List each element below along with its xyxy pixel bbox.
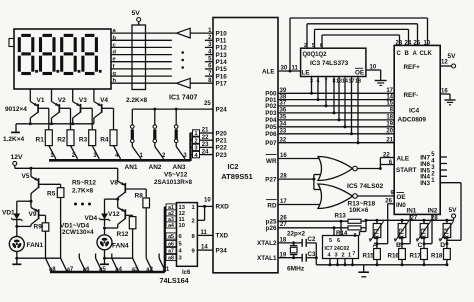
svg-text:IC7 24C02: IC7 24C02	[325, 246, 350, 252]
wire Q2 pin6 to C pin23	[320, 35, 400, 49]
ground (FAN4)	[100, 258, 109, 264]
resistor R5	[47, 188, 64, 259]
resistor R13	[335, 212, 367, 223]
svg-text:19: 19	[386, 122, 393, 128]
thermistor RT3	[416, 220, 431, 245]
svg-text:27: 27	[280, 222, 287, 228]
24C02 pin labels	[328, 233, 357, 258]
svg-text:AN3: AN3	[173, 164, 186, 171]
svg-text:17: 17	[349, 78, 355, 84]
svg-text:15: 15	[386, 101, 393, 107]
svg-text:9012×4: 9012×4	[5, 106, 27, 113]
svg-text:21: 21	[386, 137, 393, 143]
svg-text:R8: R8	[135, 193, 144, 200]
svg-text:V8: V8	[110, 180, 118, 187]
svg-text:AT89S51: AT89S51	[221, 172, 253, 181]
svg-text:24: 24	[405, 40, 412, 46]
svg-text:IC1 7407: IC1 7407	[169, 95, 198, 102]
svg-text:P21: P21	[216, 138, 228, 145]
wire caps to ground	[315, 243, 318, 265]
transistor V9 (2SA1013)	[29, 201, 46, 226]
labels IC2 AT89S51	[221, 164, 253, 181]
labels IC3 74LS373	[302, 52, 365, 77]
svg-text:P06: P06	[265, 131, 277, 138]
svg-text:P34: P34	[216, 247, 228, 254]
resistor network RP 2.2K×8	[126, 25, 148, 104]
resistor R9	[34, 223, 49, 258]
svg-text:18: 18	[355, 78, 361, 84]
wires 24C02 ground pins	[329, 259, 355, 267]
svg-text:33: 33	[280, 129, 287, 135]
svg-text:7: 7	[353, 251, 356, 257]
svg-text:FAN4: FAN4	[112, 243, 129, 250]
svg-text:P23: P23	[216, 152, 228, 159]
svg-text:REF+: REF+	[404, 64, 421, 71]
IC2 left port labels	[216, 30, 230, 254]
svg-text:23: 23	[396, 40, 403, 46]
svg-text:IN3: IN3	[420, 180, 430, 187]
buffer IC1h 7407 (segment h)	[177, 78, 213, 88]
svg-text:WR: WR	[266, 158, 277, 165]
svg-text:5V: 5V	[448, 53, 457, 60]
labels IC6 74LS164	[160, 270, 192, 285]
svg-text:RT3: RT3	[422, 228, 428, 240]
wire p26 SDA	[278, 222, 348, 229]
svg-text:R12: R12	[117, 231, 129, 238]
svg-text:3: 3	[179, 256, 183, 262]
bus stub 1 to P20 pin 21	[191, 128, 214, 138]
svg-text:R1: R1	[36, 137, 45, 144]
svg-text:V3: V3	[79, 97, 87, 104]
wires display segments a-h	[111, 33, 177, 83]
svg-text:35: 35	[280, 115, 287, 121]
svg-text:16: 16	[441, 89, 448, 95]
svg-text:IN1: IN1	[407, 207, 417, 214]
ground (display drivers)	[11, 124, 20, 133]
svg-text:10: 10	[179, 223, 185, 229]
svg-text:ADC0809: ADC0809	[398, 117, 427, 124]
bus stub 3 to P22 pin 23	[191, 142, 214, 152]
svg-text:4: 4	[179, 249, 183, 255]
svg-text:P14: P14	[216, 59, 228, 66]
svg-text:74LS164: 74LS164	[160, 276, 189, 285]
svg-text:39: 39	[280, 88, 287, 94]
bus digit/key select (thick)	[49, 133, 191, 161]
NOR gate IC5b	[318, 184, 357, 209]
transistor V5 (2SA1013)	[22, 168, 61, 202]
svg-text:P16: P16	[216, 73, 228, 80]
svg-text:7: 7	[325, 78, 328, 84]
label 1.2K×4	[3, 136, 25, 143]
svg-text:V1: V1	[37, 97, 45, 104]
svg-text:C2: C2	[308, 236, 316, 243]
svg-text:P12: P12	[216, 45, 228, 52]
svg-text:p26: p26	[266, 225, 277, 232]
svg-text:CLK: CLK	[420, 51, 433, 57]
svg-text:a5: a5	[99, 267, 106, 273]
svg-text:32: 32	[280, 137, 287, 143]
fan FAN4	[97, 228, 129, 260]
svg-text:ALE: ALE	[262, 68, 275, 75]
resistor R8	[135, 193, 150, 259]
svg-text:17: 17	[386, 88, 393, 94]
svg-text:3: 3	[310, 78, 313, 84]
wire sensor ground rail	[316, 264, 447, 266]
transistor V8 (2SA1013)	[110, 177, 146, 201]
svg-text:11: 11	[292, 65, 299, 71]
wire Q1 pin5 to B pin24	[312, 29, 409, 49]
svg-text:a8: a8	[168, 256, 174, 262]
svg-text:4: 4	[431, 159, 435, 165]
wire Q0 pin2 to A pin25	[304, 24, 418, 49]
ground (sensor rail)	[358, 265, 369, 277]
resistor R14	[336, 226, 366, 237]
resistor R2	[57, 130, 77, 159]
label 22p×2	[287, 230, 306, 237]
node A	[373, 242, 378, 249]
svg-text:38: 38	[280, 94, 287, 100]
wire 12V rail corner	[117, 168, 119, 176]
wire ALE to LE and CLK	[278, 18, 428, 73]
svg-text:37: 37	[280, 101, 287, 107]
REF+ 5V terminal	[404, 53, 457, 71]
svg-text:R16: R16	[388, 252, 400, 259]
wire IN1 pin27 to node B	[402, 214, 410, 243]
svg-text:P22: P22	[216, 145, 228, 152]
svg-text:TXD: TXD	[216, 233, 229, 240]
svg-text:RD: RD	[267, 203, 277, 210]
svg-text:R17: R17	[410, 252, 422, 259]
svg-text:14: 14	[386, 94, 393, 100]
ellipsis dots (buffers b-g omitted)	[181, 51, 184, 69]
labels R5~R12 2.7K×8	[72, 180, 96, 195]
svg-text:14: 14	[201, 245, 208, 251]
svg-text:4: 4	[317, 78, 320, 84]
label IC5 74LS02	[347, 183, 383, 190]
svg-text:a4: a4	[115, 267, 122, 273]
label IC7 24C02	[325, 246, 350, 252]
svg-text:a6: a6	[168, 242, 174, 248]
svg-text:V4: V4	[100, 97, 108, 104]
zener diode VD1 (2CW130)	[2, 201, 31, 228]
segment net labels a-h	[113, 28, 117, 84]
svg-text:5: 5	[179, 242, 183, 248]
wire fan1 ground rail	[17, 257, 61, 259]
svg-text:14: 14	[342, 78, 348, 84]
svg-text:1: 1	[348, 252, 351, 258]
push button AN3	[174, 109, 187, 159]
wires P00-P07 data bus	[278, 88, 394, 143]
transistor V3 (9012 PNP digit driver)	[73, 89, 93, 130]
svg-text:R4: R4	[100, 137, 109, 144]
svg-text:IN2: IN2	[428, 207, 438, 214]
74LS164 input tags a1-a8	[165, 204, 186, 262]
svg-text:RT1: RT1	[375, 228, 381, 240]
wire IN0 to node A	[377, 204, 394, 244]
svg-text:4: 4	[328, 252, 332, 258]
svg-text:C: C	[418, 242, 423, 249]
svg-text:IC5 74LS02: IC5 74LS02	[347, 183, 383, 190]
svg-text:P02: P02	[265, 103, 277, 110]
svg-text:RT2: RT2	[400, 228, 406, 240]
svg-text:2: 2	[192, 219, 195, 225]
4-digit 7-segment LED display	[9, 29, 111, 89]
svg-text:P03: P03	[265, 110, 277, 117]
capacitor C2	[302, 236, 316, 247]
svg-text:V2: V2	[58, 97, 66, 104]
resistor R16	[388, 244, 406, 267]
svg-text:18: 18	[386, 115, 393, 121]
svg-text:17: 17	[280, 199, 287, 205]
svg-text:16: 16	[280, 153, 287, 159]
svg-text:R5~R12: R5~R12	[72, 180, 96, 187]
svg-text:6MHz: 6MHz	[287, 265, 305, 272]
thermistor RT2	[394, 220, 409, 245]
transistor V2 (9012 PNP digit driver)	[52, 89, 71, 130]
svg-text:R18: R18	[431, 252, 443, 259]
wire 24C02 pin5 to SDA	[333, 228, 335, 236]
IC4 top pin numbers	[396, 40, 431, 46]
svg-text:P13: P13	[216, 52, 228, 59]
svg-text:1: 1	[431, 178, 435, 184]
bus taps a8-a1	[46, 254, 170, 274]
wire LS164 pin8 to TXD	[197, 230, 213, 236]
svg-text:5: 5	[329, 238, 332, 244]
svg-text:Q0Q1Q2: Q0Q1Q2	[303, 52, 328, 58]
wire collector common rail	[16, 122, 94, 125]
wire LS164 pin1/2 to RXD	[197, 198, 213, 221]
svg-text:C3: C3	[308, 251, 316, 258]
wire P24 scan line	[132, 101, 213, 111]
svg-text:R5: R5	[47, 191, 56, 198]
zener diode VD4 (2CW130)	[85, 199, 118, 229]
wire fan4 rail	[105, 257, 133, 259]
svg-text:LE: LE	[302, 70, 310, 77]
wire XTAL1	[278, 252, 302, 259]
svg-text:1: 1	[192, 205, 196, 211]
svg-text:5V: 5V	[132, 10, 141, 17]
svg-text:9: 9	[192, 248, 196, 254]
REF- ground	[404, 89, 456, 105]
labels AN1 AN2 AN3	[125, 164, 186, 171]
svg-text:2CW130×4: 2CW130×4	[62, 229, 94, 236]
svg-text:A: A	[413, 51, 418, 57]
transistor V12 (2SA1013)	[108, 199, 133, 228]
svg-text:a7: a7	[168, 249, 174, 255]
labels VD1~VD4 2CW130×4	[60, 223, 94, 236]
svg-text:2: 2	[431, 172, 435, 178]
svg-text:1: 1	[194, 131, 197, 137]
svg-text:22: 22	[383, 152, 390, 158]
transistor V4 (9012 PNP digit driver)	[94, 89, 114, 130]
svg-text:P05: P05	[265, 124, 277, 131]
svg-text:P27: P27	[265, 176, 277, 183]
IC4 OE label	[397, 193, 406, 201]
svg-text:V9: V9	[29, 211, 37, 218]
resistor R17	[410, 244, 428, 267]
wire gate to ALE/START	[357, 152, 394, 170]
svg-text:V5: V5	[22, 173, 30, 180]
svg-text:22: 22	[202, 135, 209, 141]
crystal 6MHz	[287, 243, 305, 272]
wire 24C02 pin6 to SCL	[340, 221, 342, 235]
svg-text:10: 10	[370, 65, 377, 71]
node C	[418, 242, 423, 249]
svg-text:AN1: AN1	[125, 164, 138, 171]
power terminal 5V (network)	[132, 10, 141, 25]
svg-text:B: B	[396, 242, 401, 249]
svg-text:XTAL2: XTAL2	[257, 240, 277, 247]
svg-text:6: 6	[337, 238, 340, 244]
labels R13~R18 10K×6	[348, 200, 376, 214]
resistor R18	[431, 244, 450, 267]
buffer IC1a 7407 (segment a)	[177, 28, 213, 38]
svg-text:IN0: IN0	[396, 202, 406, 209]
wire LS164 pin9 to P34	[197, 245, 213, 251]
svg-text:11: 11	[201, 230, 208, 236]
svg-text:lc6: lc6	[182, 270, 191, 276]
svg-text:OE: OE	[397, 194, 406, 201]
capacitor C3	[302, 251, 316, 262]
svg-text:28: 28	[280, 174, 287, 180]
svg-text:5: 5	[431, 152, 435, 158]
svg-text:2: 2	[162, 153, 166, 159]
svg-text:V12: V12	[108, 211, 120, 218]
svg-text:20: 20	[386, 129, 393, 135]
label 9012×4	[5, 106, 27, 113]
svg-text:P10: P10	[216, 30, 228, 37]
svg-text:21: 21	[202, 128, 209, 134]
thermistor RT1	[369, 220, 384, 245]
wire gate to OE	[357, 191, 394, 197]
wires to P10-P17 pins 1-8	[205, 28, 213, 84]
svg-text:2: 2	[194, 138, 197, 144]
IC4 IN0 label	[385, 199, 406, 209]
IC4 IN1 IN2 labels	[407, 207, 439, 221]
resistor R15	[363, 244, 381, 267]
svg-text:C: C	[397, 51, 402, 57]
ground (IC3 OE pin10)	[366, 65, 387, 86]
svg-text:24: 24	[202, 149, 209, 155]
svg-text:3: 3	[183, 153, 187, 159]
svg-text:a8: a8	[49, 267, 56, 273]
svg-text:FAN1: FAN1	[27, 242, 44, 249]
svg-text:R15: R15	[363, 252, 375, 259]
resistor R12	[117, 217, 136, 259]
svg-text:22p×2: 22p×2	[287, 230, 306, 237]
IC4 CBA CLK labels	[397, 51, 433, 57]
svg-text:P20: P20	[216, 130, 228, 137]
transistor V1 (9012 PNP digit driver)	[30, 89, 49, 130]
IC U2 AT89S51 microcontroller	[213, 18, 278, 273]
svg-text:XTAL1: XTAL1	[257, 255, 277, 262]
svg-text:23: 23	[202, 142, 209, 148]
svg-text:2SA1013R×8: 2SA1013R×8	[154, 179, 192, 186]
svg-text:10K×6: 10K×6	[349, 207, 369, 214]
svg-text:a3: a3	[132, 267, 139, 273]
svg-text:3: 3	[194, 146, 197, 152]
wire WR to gate	[278, 153, 320, 159]
svg-text:D: D	[440, 242, 445, 249]
svg-text:R3: R3	[79, 137, 88, 144]
NOR gate IC5a	[318, 157, 357, 181]
wire p25 SCL	[278, 216, 348, 223]
fan FAN1	[9, 226, 43, 259]
bus a1-a8 (thick)	[50, 207, 165, 272]
svg-text:P17: P17	[216, 81, 228, 88]
wire RD to gate	[278, 199, 320, 205]
wires IC3 D inputs to P0 bus	[310, 77, 361, 145]
svg-text:R9: R9	[34, 224, 43, 231]
IC2 right port labels	[257, 68, 277, 262]
bus stub 4 to P23 pin 24	[191, 149, 214, 159]
ground (FAN1)	[12, 258, 21, 264]
svg-text:36: 36	[280, 108, 287, 114]
IC U4 ADC0809	[394, 45, 440, 214]
svg-text:5V: 5V	[449, 207, 458, 214]
svg-text:1.2K×4: 1.2K×4	[3, 136, 25, 143]
node D	[440, 242, 445, 249]
wire P27 to gates	[278, 174, 320, 190]
svg-text:34: 34	[280, 122, 287, 128]
svg-text:8: 8	[192, 234, 196, 240]
svg-text:26: 26	[280, 216, 287, 222]
74LS164 right pin numbers	[192, 205, 196, 254]
svg-text:8: 8	[354, 233, 357, 239]
svg-text:IC4: IC4	[409, 108, 420, 115]
svg-text:P24: P24	[216, 106, 228, 113]
svg-text:P11: P11	[216, 38, 227, 45]
wire pullups to 5V	[365, 219, 368, 232]
IC4 ALE START labels	[396, 155, 417, 174]
power terminal 12V	[11, 154, 24, 168]
svg-text:a1: a1	[163, 267, 170, 273]
svg-text:OE: OE	[355, 70, 364, 77]
svg-text:10: 10	[204, 198, 211, 204]
wire 12V rail	[15, 167, 118, 170]
resistor R1	[36, 130, 56, 159]
svg-text:25: 25	[414, 40, 421, 46]
svg-text:19: 19	[280, 252, 287, 258]
svg-text:a2: a2	[146, 267, 153, 273]
labels V5~V12 2SA1013R×8	[154, 172, 192, 187]
svg-text:a4: a4	[168, 223, 174, 229]
svg-text:25: 25	[204, 101, 211, 107]
svg-text:VD1: VD1	[2, 210, 15, 217]
resistor R3	[79, 130, 99, 159]
ellipsis dots (fan channels omitted)	[74, 203, 91, 206]
svg-text:12: 12	[441, 60, 448, 66]
wire V9 collector to fan node	[17, 225, 31, 227]
svg-text:10: 10	[424, 40, 431, 46]
svg-text:6: 6	[179, 234, 183, 240]
svg-text:3: 3	[431, 165, 435, 171]
wire IN3 to node D	[447, 183, 461, 244]
bus stub 2 to P21 pin 22	[191, 135, 214, 145]
svg-text:2.2K×8: 2.2K×8	[126, 97, 148, 104]
svg-text:IC2: IC2	[228, 164, 239, 171]
svg-text:B: B	[405, 51, 410, 57]
svg-text:V5~V12: V5~V12	[164, 172, 188, 179]
svg-text:1: 1	[140, 153, 144, 159]
svg-text:AN2: AN2	[149, 164, 162, 171]
IN7-IN3 input stubs	[420, 152, 461, 187]
svg-text:VD4: VD4	[85, 215, 98, 222]
svg-text:2: 2	[342, 252, 345, 258]
svg-text:R2: R2	[57, 137, 66, 144]
svg-text:30: 30	[281, 65, 288, 71]
svg-text:a5: a5	[168, 234, 174, 240]
